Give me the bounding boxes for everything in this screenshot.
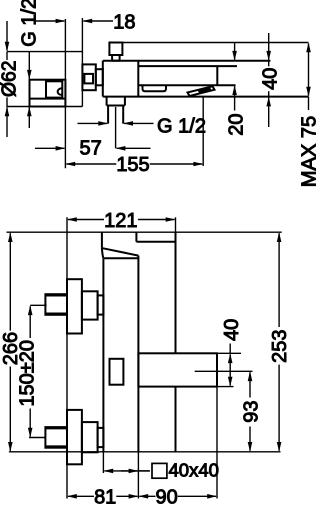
spout top line [138, 65, 237, 67]
arrow 20 bottom [234, 86, 236, 110]
arrow O62 top [6, 21, 8, 51]
union nut inner square [84, 74, 93, 84]
svg-text:18: 18 [113, 12, 135, 34]
body front edge [102, 258, 104, 452]
svg-text:57: 57 [79, 138, 101, 160]
svg-text:40: 40 [260, 68, 282, 90]
arrow 93 top [249, 372, 251, 397]
body top edge + ext [103, 60, 271, 62]
union socket arc [58, 88, 62, 94]
lever (plan) [188, 86, 215, 96]
outlet collar bottom [107, 105, 125, 107]
svg-text:Ø62: Ø62 [0, 61, 20, 98]
wire wall line (plan) [64, 19, 66, 168]
box mid line / ext 93 [195, 370, 253, 372]
wall line upper [175, 232, 177, 353]
arrow 40 bottom [268, 98, 270, 127]
diverter button (side) [110, 359, 124, 385]
arrow 90 left [139, 495, 155, 497]
ext line handle front [66, 217, 68, 498]
arrow 40x40 right [121, 470, 137, 472]
box top ext [217, 352, 241, 354]
union nut (plan) [82, 64, 95, 90]
ext 150 top [30, 304, 46, 306]
diverter knob (plan) [109, 43, 122, 56]
arm underside [136, 241, 175, 243]
svg-text:93: 93 [240, 400, 262, 422]
arrow 40 top [268, 33, 270, 60]
arrow 18 left [35, 20, 65, 22]
union lower line [30, 98, 66, 100]
arrow 40 box bottom [229, 370, 231, 386]
ext line wall top [175, 217, 177, 232]
svg-text:40x40: 40x40 [169, 460, 219, 481]
handle stem bottom [45, 427, 67, 448]
body top seam [104, 257, 138, 259]
arrow 18 right [83, 20, 113, 22]
handle disc bottom [67, 410, 82, 464]
ext line box right lower [216, 387, 218, 499]
in-wall supply box [138, 353, 217, 386]
handle stem top [45, 294, 67, 315]
svg-text:155: 155 [116, 154, 149, 176]
arrow 155 right [150, 163, 203, 165]
body rear edge [137, 256, 139, 452]
lever inner mark [199, 89, 210, 93]
wall line lower [175, 387, 177, 452]
outlet collar left [106, 97, 108, 105]
arrow 57 left [35, 147, 64, 149]
union sliver bottom [98, 428, 104, 447]
svg-text:20: 20 [226, 113, 248, 135]
svg-text:90: 90 [155, 487, 177, 508]
outlet pipe right [122, 106, 124, 124]
ext line body front lower [102, 452, 104, 473]
escutcheon face line [81, 18, 83, 107]
ext line top (O62) [7, 51, 82, 53]
arrow 266 top [9, 233, 11, 330]
ext 150 bottom [29, 437, 45, 439]
arrow 40 box top [229, 354, 231, 370]
body/spout divider [137, 61, 139, 97]
ext line bottom (O62) [6, 106, 82, 108]
bottom reference line [9, 451, 281, 453]
arrow G1/2 union top [28, 52, 30, 79]
handle disc top [67, 279, 82, 333]
diverter knob neck [112, 55, 120, 61]
svg-text:121: 121 [104, 210, 137, 232]
svg-text:G 1/2: G 1/2 [157, 115, 206, 137]
spout bottom line + ext [138, 84, 235, 86]
svg-text:MAX 75: MAX 75 [299, 116, 317, 188]
svg-text:253: 253 [269, 330, 291, 363]
body bottom edge + ext [103, 96, 309, 98]
arrow 20 top [234, 43, 236, 60]
spout underside diagonal [103, 248, 139, 255]
svg-text:81: 81 [94, 487, 116, 508]
arrow 40x40 left [104, 470, 149, 472]
outlet pipe centerline [115, 107, 117, 148]
union nut bottom (side) [82, 422, 98, 452]
union nut top (side) [82, 291, 98, 319]
arrow 81 left [68, 495, 94, 497]
arrow O62 bottom [6, 108, 8, 138]
outlet collar right [124, 97, 126, 105]
body left edge [102, 61, 104, 97]
arrow 81 right [116, 495, 137, 497]
box bottom ext [217, 386, 234, 388]
arrow 150 top [29, 306, 31, 338]
spout tip curve [102, 248, 104, 259]
ext line body rear lower [137, 452, 139, 499]
union sliver top [98, 295, 104, 314]
top reference line [7, 231, 282, 233]
arrow G1/2 pipe left [78, 122, 108, 124]
spout end vertical [216, 66, 218, 85]
svg-text:150±20: 150±20 [17, 340, 39, 407]
arrow 57 right [117, 147, 151, 149]
arrow G1/2 union bottom [28, 108, 30, 129]
arrow 266 bottom [9, 367, 11, 451]
label square 40x40 [152, 463, 167, 478]
arrow 253 top [278, 233, 280, 327]
arrow 93 bottom [249, 427, 251, 451]
arrow MAX75 top [308, 44, 310, 71]
arrow 90 right [178, 495, 216, 497]
svg-text:G 1/2: G 1/2 [19, 0, 41, 47]
knob top ext line [109, 42, 308, 44]
arrow 121 left [68, 219, 104, 221]
arrow 121 right [138, 219, 175, 221]
outlet pipe left [107, 106, 109, 124]
arrow MAX75 bottom [308, 70, 310, 96]
svg-text:40: 40 [221, 319, 243, 341]
spout front tip [101, 232, 103, 247]
union inner socket [46, 81, 62, 97]
aerator slot [143, 85, 167, 91]
in-wall union body [30, 80, 66, 107]
arrow G1/2 pipe right [124, 122, 153, 124]
arrow 253 bottom [278, 365, 280, 451]
spout/arm joint [135, 232, 137, 242]
arrow 155 left [66, 163, 116, 165]
ext line spout outlet center [202, 97, 204, 166]
arrow 150 bottom [29, 409, 31, 437]
union connector (plan) [96, 69, 103, 85]
